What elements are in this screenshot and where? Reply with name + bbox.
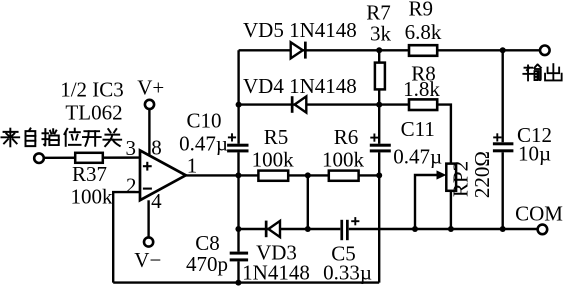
potentiometer RP2 body vertical [446,164,456,191]
wire left vertical x=238.5 top to C10 [237,50,239,143]
svg-text:VD5 1N4148: VD5 1N4148 [243,18,357,42]
op-amp U1 1/2 TL062 triangle [140,150,186,200]
junction bottom rail C8 [235,280,241,286]
resistor R9 body [409,45,437,56]
svg-text:4: 4 [151,189,162,213]
junction left rail VD4 [236,102,242,108]
svg-text:V−: V− [134,248,161,272]
capacitor C8 plates [230,252,248,255]
wire C12 bottom to COM rail [502,152,504,229]
diode VD5 triangle [291,42,303,58]
wire input to pin3 y=157.6 [44,156,141,159]
svg-text:1: 1 [187,154,198,178]
svg-text:R37: R37 [72,162,107,186]
wire left vertical x=238.5 C10 to C8 [237,152,239,251]
junction C12 bottom COM rail [500,226,506,232]
svg-text:R6: R6 [334,125,359,149]
wire feedback vertical x=379.2 C11 through main rail to bottom [378,152,380,282]
resistor R5 body [258,171,288,181]
terminal output circle [540,46,550,56]
resistor R7 body vertical [375,63,385,90]
capacitor C5 plates vertical [340,220,343,240]
resistor R8 body [409,99,437,110]
junction C10 main rail [235,172,241,178]
svg-text:C10: C10 [186,109,221,133]
junction second rail C8 [235,226,241,232]
capacitor C11 plates [370,144,391,147]
node label: Chinese text 来自挡位开关 (from range switch), drawn as paths [1,129,19,147]
svg-text:R9: R9 [409,0,434,21]
wire feedback bottom rail y=282.6 [113,281,379,283]
junction R7 top [376,47,382,53]
terminal V+ circle [145,100,154,109]
wire pin2 to feedback vertical [113,192,140,283]
capacitor C11 polarity plus [370,134,378,142]
svg-text:100k: 100k [71,184,114,208]
svg-text:TL062: TL062 [65,101,122,125]
terminal COM circle [538,225,548,235]
capacitor C5 polarity plus [351,217,359,225]
terminal input circle [34,153,44,163]
svg-text:RP2: RP2 [448,161,472,197]
svg-text:470p: 470p [186,252,228,276]
junction RP2 bottom [448,226,454,232]
capacitor C10 plates [227,144,248,147]
capacitor C10 polarity plus [228,133,236,141]
svg-text:1/2 IC3: 1/2 IC3 [60,78,124,102]
wire C12 branch x=502.7 top rail to C12 [502,50,504,142]
svg-text:VD4 1N4148: VD4 1N4148 [243,74,357,98]
diode VD5 cathode bar [304,42,307,59]
capacitor C12 plates [493,142,514,145]
resistor R6 body [329,171,359,181]
svg-text:0.47µ: 0.47µ [393,144,442,168]
net label: Chinese 输出 (output), drawn as paths [523,65,541,81]
svg-text:220Ω: 220Ω [470,151,494,198]
op-amp minus input mark [143,188,152,190]
resistor R37 body [75,153,103,163]
junction R7 bottom [376,102,382,108]
diode VD3 cathode bar [265,221,268,238]
diode VD4 cathode bar [291,96,294,113]
wire op-amp V+ pin8 [148,109,150,156]
wire RP2 bottom to second rail [450,191,452,229]
svg-text:2: 2 [126,173,137,197]
svg-text:3k: 3k [370,22,392,46]
op-amp plus input mark [143,162,152,171]
wire RP2 wiper to second rail [415,175,438,229]
junction C11 main rail [376,172,382,178]
diode VD3 triangle [268,221,280,237]
svg-text:R5: R5 [264,125,289,149]
junction second rail VD3 C5 [305,226,311,232]
svg-text:C11: C11 [401,117,435,141]
wire op-amp output rail y=175.4 [185,174,379,176]
svg-text:1.8k: 1.8k [403,77,440,101]
svg-text:10µ: 10µ [518,142,551,166]
junction R5 R6 node [305,172,311,178]
wire VD4/R8 rail y=104.6 with corner down to RP2 top [239,105,451,164]
wire left vertical x=238.5 C8 to bottom rail [237,261,239,282]
capacitor C12 polarity plus [493,133,501,141]
junction wiper second rail [412,226,418,232]
svg-text:0.33µ: 0.33µ [323,260,372,284]
svg-text:1N4148: 1N4148 [242,260,310,284]
wire second rail y=229 right of C5 to COM [349,228,538,230]
svg-text:100k: 100k [252,148,295,172]
wire op-amp V- pin4 [147,200,149,237]
potentiometer RP2 wiper arrowhead [437,170,447,179]
svg-text:100k: 100k [322,148,365,172]
svg-text:3: 3 [126,136,137,160]
terminal V- circle [144,237,153,246]
wire second rail y=229 left of C5 [238,228,340,230]
svg-text:6.8k: 6.8k [405,20,442,44]
junction C12 top [500,47,506,53]
wire R5/R6 node to VD3/C5 node x=307.8 [307,175,309,229]
wire top rail VD5/R9 y=50 [239,49,540,51]
diode VD4 triangle [295,96,307,112]
svg-text:8: 8 [151,135,162,159]
wire R7 branch x=379.2 top rail to C11 [378,50,380,143]
svg-text:COM: COM [515,202,563,226]
svg-text:0.47µ: 0.47µ [179,131,228,155]
svg-text:V+: V+ [137,75,164,99]
